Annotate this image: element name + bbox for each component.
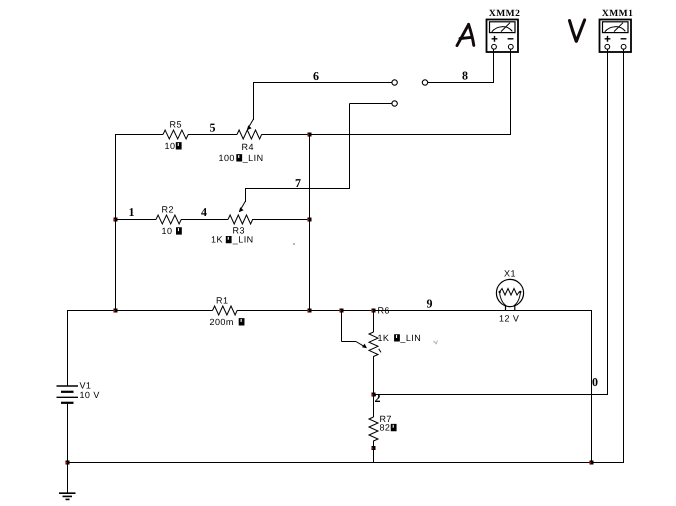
multimeter XMM1 minus sign xyxy=(621,38,627,40)
wire lamp drop xyxy=(591,311,593,464)
svg-text:7: 7 xyxy=(295,176,301,190)
svg-text:10 V: 10 V xyxy=(79,390,99,400)
svg-text:R5: R5 xyxy=(170,120,182,130)
potentiometer R6 wiper arm xyxy=(356,342,366,348)
svg-text:8: 8 xyxy=(462,68,468,82)
switch contact node 6 left xyxy=(392,80,397,85)
wire node 6 horizontal xyxy=(253,82,392,84)
multimeter XMM2 plus sign xyxy=(492,36,498,42)
svg-text:0: 0 xyxy=(592,375,598,389)
node junction rail-R1 xyxy=(113,309,117,313)
node junction lamp-rail xyxy=(589,461,593,465)
multimeter XMM1 xyxy=(600,20,632,53)
resistor R7 body xyxy=(369,417,378,441)
svg-text:R6: R6 xyxy=(377,306,389,316)
wire R6 bottom lead xyxy=(373,356,375,395)
wire R6 wiper vertical xyxy=(341,311,343,342)
switch contact node 7 xyxy=(392,101,397,106)
svg-text:100: 100 xyxy=(219,153,235,163)
node junction battery-rail xyxy=(65,461,69,465)
multimeter XMM1 plus terminal xyxy=(605,44,610,49)
node junction R7 lead xyxy=(371,446,375,450)
lamp X1 globe xyxy=(496,279,523,306)
potentiometer R4 body xyxy=(237,130,262,139)
multimeter XMM2 case xyxy=(487,20,519,53)
battery V1 plate long 2 xyxy=(57,396,79,398)
wire R3 wiper riser xyxy=(245,189,247,203)
battery V1 plate short 1 xyxy=(61,391,74,393)
annotation letter V xyxy=(570,20,585,41)
wires-crisp group xyxy=(67,49,624,493)
wire R6 top lead xyxy=(373,311,375,333)
potentiometer R6 body xyxy=(369,332,378,357)
potentiometer R3 body xyxy=(228,215,253,224)
node junction branch-R3 xyxy=(307,218,311,222)
svg-text:_LIN: _LIN xyxy=(242,153,264,163)
battery V1 plate short 2 xyxy=(61,402,74,404)
multimeter XMM1 scale arc xyxy=(605,27,626,32)
multimeter XMM2 xyxy=(487,20,519,53)
svg-text:9: 9 xyxy=(426,297,432,311)
annotation letter A xyxy=(457,24,474,45)
ground symbol xyxy=(59,493,76,499)
components group xyxy=(156,119,381,441)
node junction branch-R4 xyxy=(307,133,311,137)
svg-text:V1: V1 xyxy=(79,381,91,391)
svg-text:XMM1: XMM1 xyxy=(602,9,634,19)
multimeter XMM2 minus terminal xyxy=(508,44,513,49)
wire XMM1 plus drop xyxy=(607,49,609,395)
potentiometer R3 wiper arrowhead xyxy=(239,207,244,212)
wire middle branch vertical xyxy=(309,135,311,312)
wire top row left segment xyxy=(115,134,163,136)
wire R3 row right segment xyxy=(252,219,310,221)
potentiometer R6 far-side tick xyxy=(379,349,381,353)
multimeter XMM1 needle xyxy=(614,23,623,32)
svg-text:200m: 200m xyxy=(209,317,233,327)
multimeter XMM2 minus sign xyxy=(508,38,514,40)
svg-text:1K: 1K xyxy=(377,333,389,343)
wire node 7 riser xyxy=(349,104,351,189)
svg-text:1: 1 xyxy=(129,205,135,219)
wire XMM1 minus drop xyxy=(623,49,625,463)
multimeter XMM2 plus terminal xyxy=(492,44,497,49)
wire R1 row left segment xyxy=(67,310,213,312)
node junction R6-R1row xyxy=(371,309,375,313)
resistor R2 body xyxy=(156,215,181,224)
node junction branch-R1 xyxy=(307,309,311,313)
node junction wiper-R1row xyxy=(339,309,343,313)
lamp X1 xyxy=(496,279,523,310)
svg-text:82: 82 xyxy=(379,423,390,433)
wire node 8 horizontal xyxy=(428,82,495,84)
wire R1 row right segment xyxy=(237,310,592,312)
wire R4 row right segment xyxy=(262,134,511,136)
wire R7 top lead xyxy=(373,395,375,418)
svg-text:5: 5 xyxy=(210,120,216,134)
lamp X1 base legs xyxy=(505,306,507,310)
potentiometer R6 wiper arrowhead xyxy=(362,344,367,349)
wire R7 bottom lead xyxy=(373,441,375,464)
wire ground lead xyxy=(67,463,69,494)
wire node 2 horizontal xyxy=(374,394,609,396)
battery V1 plate long top xyxy=(57,385,79,387)
lamp X1 filament xyxy=(500,289,520,296)
wire battery top lead xyxy=(67,311,69,387)
svg-text:XMM2: XMM2 xyxy=(489,9,521,19)
wire switch stub horizontal xyxy=(350,103,393,105)
svg-text:6: 6 xyxy=(313,69,319,83)
svg-text:10: 10 xyxy=(165,141,176,151)
wire node 5 segment xyxy=(188,134,237,136)
multimeter XMM2 display xyxy=(490,22,516,33)
svg-text:R1: R1 xyxy=(216,296,228,306)
multimeter XMM1 minus terminal xyxy=(621,44,626,49)
svg-text:2: 2 xyxy=(374,391,380,405)
speck artifact 2 xyxy=(434,341,438,345)
svg-text:R4: R4 xyxy=(242,142,254,152)
multimeter XMM1 case xyxy=(600,20,632,53)
resistor R5 body xyxy=(163,130,188,139)
svg-text:X1: X1 xyxy=(504,269,516,279)
multimeter XMM2 scale arc xyxy=(492,27,513,32)
lamp X1 filament support left xyxy=(500,292,507,306)
switch contact circles xyxy=(392,80,428,106)
svg-text:4: 4 xyxy=(201,205,207,219)
svg-text:1K: 1K xyxy=(211,235,223,245)
svg-text:12 V: 12 V xyxy=(499,314,519,324)
svg-text:10: 10 xyxy=(162,226,173,236)
node junction rail-R2 xyxy=(113,218,117,222)
multimeter XMM1 display xyxy=(603,22,629,33)
node junction node2 xyxy=(371,393,375,397)
svg-text:_LIN: _LIN xyxy=(399,333,421,343)
lamp X1 filament end dots xyxy=(499,291,501,293)
multimeter XMM1 plus sign xyxy=(605,36,611,42)
battery V1 xyxy=(57,386,79,403)
potentiometer R4 wiper arm xyxy=(247,119,253,130)
wire left rail vertical xyxy=(115,134,117,311)
speck artifact 1 xyxy=(293,243,295,245)
potentiometer R3 wiper arm xyxy=(239,201,245,212)
wire XMM2 minus drop xyxy=(510,49,512,135)
wire battery bottom lead xyxy=(67,403,69,463)
wire node 1 segment xyxy=(115,219,156,221)
switch contact node 8 right xyxy=(422,80,427,85)
lamp X1 filament support right xyxy=(514,292,521,306)
resistor R1 body xyxy=(213,306,238,315)
wire bottom rail xyxy=(67,462,624,464)
multimeter XMM2 needle xyxy=(501,23,510,32)
wire node 4 segment xyxy=(181,219,228,221)
wire node 7 horizontal xyxy=(245,188,350,190)
svg-text:_LIN: _LIN xyxy=(232,235,254,245)
svg-text:R2: R2 xyxy=(162,205,174,215)
potentiometer R4 wiper arrowhead xyxy=(247,125,252,130)
wire R6 wiper horizontal xyxy=(342,341,357,343)
wire XMM2 plus riser xyxy=(493,49,495,83)
wire R4 wiper riser xyxy=(253,83,255,121)
